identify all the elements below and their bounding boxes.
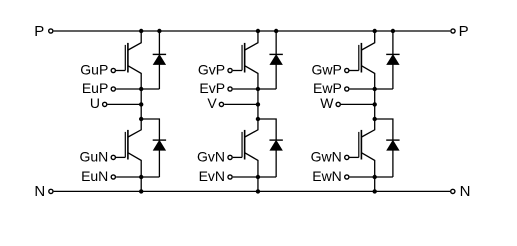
terminal P right circle — [451, 29, 455, 33]
wire: lower IGBT emitter to N rail — [362, 153, 375, 192]
wire: phase node branch to lower diode cathode — [375, 119, 393, 140]
diode DWP freewheel (upper), cathode bar — [386, 53, 399, 55]
wire: N bus rail — [54, 190, 451, 192]
terminal N right circle — [451, 189, 455, 193]
node: junction dot emitter to N rail (W leg) — [373, 189, 377, 193]
wire: lower IGBT emitter to N rail — [128, 153, 141, 192]
svg-text:EvN: EvN — [199, 168, 225, 184]
diode DVP triangle — [270, 55, 282, 64]
wire: phase node to collector of lower IGBT — [245, 119, 258, 137]
transistor QUN lower IGBT body bar — [127, 130, 129, 160]
node: junction dot phase W node (W leg) — [373, 102, 377, 106]
node: junction dot diode branch node (U leg) — [139, 117, 143, 121]
diode DWN freewheel (lower), cathode bar — [386, 139, 399, 141]
wire: P rail to DUP cathode — [158, 31, 160, 54]
wire: P rail to DWP cathode — [392, 31, 394, 54]
transistor QVN lower IGBT body bar — [244, 130, 246, 160]
terminal V circle — [219, 102, 223, 106]
node: junction dot EvP node (V leg) — [256, 87, 260, 91]
diode DVN triangle — [270, 141, 282, 150]
transistor QVP upper IGBT body bar — [244, 43, 246, 73]
transistor QWN lower IGBT gate bar — [358, 132, 360, 158]
wire: P rail to DVP cathode — [275, 31, 277, 54]
svg-text:GuN: GuN — [80, 148, 109, 164]
terminal GvN circle — [228, 155, 232, 159]
wire: gate lead GuN — [116, 156, 125, 158]
svg-text:V: V — [207, 95, 217, 111]
svg-text:EuP: EuP — [82, 80, 108, 96]
terminal EuP circle — [111, 87, 115, 91]
wire: upper IGBT emitter to phase node — [245, 66, 258, 119]
svg-text:N: N — [34, 183, 45, 200]
wire: auxiliary emitter lead EvN to node and diode — [233, 176, 276, 178]
svg-text:GwP: GwP — [311, 61, 341, 77]
node: junction dot phase U node (U leg) — [139, 102, 143, 106]
terminal GwN circle — [345, 155, 349, 159]
wire: DWN anode down to emitter node line — [392, 150, 394, 177]
wire: DVP anode down to emitter node line — [275, 64, 277, 89]
diode DUP freewheel (upper), cathode bar — [153, 53, 166, 55]
terminal W circle — [336, 102, 340, 106]
node: junction dot emitter to N rail (V leg) — [256, 189, 260, 193]
terminal EvN circle — [228, 175, 232, 179]
wire: gate lead GwN — [350, 156, 359, 158]
transistor QUP upper IGBT gate bar — [124, 45, 126, 71]
wire: phase terminal U lead — [108, 103, 142, 105]
terminal GvP circle — [228, 68, 232, 72]
transistor QUP upper IGBT body bar — [127, 43, 129, 73]
wire: P rail to collector of upper IGBT (V leg) — [245, 31, 258, 50]
svg-text:EuN: EuN — [81, 168, 108, 184]
diode DWN triangle — [387, 141, 399, 150]
node: junction dot EvN node (V leg) — [256, 175, 260, 179]
wire: gate lead GwP — [350, 70, 359, 72]
transistor QWP upper IGBT gate bar — [358, 45, 360, 71]
node: junction dot collector to P rail (W leg) — [373, 29, 377, 33]
terminal EuN circle — [111, 175, 115, 179]
wire: DUP anode down to emitter node line — [158, 64, 160, 89]
terminal GuP circle — [111, 68, 115, 72]
wire: auxiliary emitter lead EvP to node and diode — [233, 88, 276, 90]
diode DUN freewheel (lower), cathode bar — [153, 139, 166, 141]
wire: gate lead GvP — [233, 70, 242, 72]
node: junction dot diode to P rail (V leg) — [274, 29, 278, 33]
wire: phase node to collector of lower IGBT — [128, 119, 141, 137]
node: junction dot diode to P rail (U leg) — [157, 29, 161, 33]
svg-text:EwP: EwP — [313, 80, 342, 96]
svg-text:GuP: GuP — [80, 61, 108, 77]
node: junction dot diode branch node (W leg) — [373, 117, 377, 121]
wire: DVN anode down to emitter node line — [275, 150, 277, 177]
svg-text:EvP: EvP — [199, 80, 225, 96]
wire: P rail to collector of upper IGBT (U leg) — [128, 31, 141, 50]
wire: phase terminal W lead — [341, 103, 375, 105]
svg-text:N: N — [460, 183, 471, 200]
wire: P rail to collector of upper IGBT (W leg) — [362, 31, 375, 50]
wire: auxiliary emitter lead EwP to node and diode — [350, 88, 393, 90]
node: junction dot collector to P rail (U leg) — [139, 29, 143, 33]
wire: auxiliary emitter lead EuN to node and diode — [116, 176, 159, 178]
diode DWP triangle — [387, 55, 399, 64]
svg-text:P: P — [459, 23, 469, 40]
wire: phase node branch to lower diode cathode — [141, 119, 159, 140]
terminal EvP circle — [228, 87, 232, 91]
diode DVN freewheel (lower), cathode bar — [269, 139, 282, 141]
wire: phase node to collector of lower IGBT — [362, 119, 375, 137]
terminal U circle — [103, 102, 107, 106]
diode DUN triangle — [154, 141, 166, 150]
transistor QUN lower IGBT gate bar — [124, 132, 126, 158]
terminal GwP circle — [345, 68, 349, 72]
svg-text:W: W — [320, 95, 334, 111]
svg-text:GvN: GvN — [197, 148, 225, 164]
wire: upper IGBT emitter to phase node — [128, 66, 141, 119]
wire: P bus rail — [54, 30, 451, 32]
wire: gate lead GuP — [116, 70, 125, 72]
terminal P left circle — [49, 29, 53, 33]
wire: auxiliary emitter lead EuP to node and diode — [116, 88, 159, 90]
node: junction dot diode branch node (V leg) — [256, 117, 260, 121]
diode DUP triangle — [154, 55, 166, 64]
node: junction dot phase V node (V leg) — [256, 102, 260, 106]
svg-text:EwN: EwN — [312, 168, 342, 184]
wire: phase node branch to lower diode cathode — [258, 119, 276, 140]
svg-text:GvP: GvP — [198, 61, 225, 77]
node: junction dot EwN node (W leg) — [373, 175, 377, 179]
wire: phase terminal V lead — [224, 103, 258, 105]
terminal EwN circle — [345, 175, 349, 179]
svg-text:GwN: GwN — [311, 148, 342, 164]
node: junction dot collector to P rail (V leg) — [256, 29, 260, 33]
node: junction dot EuP node (U leg) — [139, 87, 143, 91]
terminal GuN circle — [111, 155, 115, 159]
svg-text:U: U — [90, 95, 100, 111]
node: junction dot EwP node (W leg) — [373, 87, 377, 91]
wire: gate lead GvN — [233, 156, 242, 158]
terminal EwP circle — [345, 87, 349, 91]
node: junction dot diode to P rail (W leg) — [391, 29, 395, 33]
wire: lower IGBT emitter to N rail — [245, 153, 258, 192]
wire: upper IGBT emitter to phase node — [362, 66, 375, 119]
svg-text:P: P — [34, 23, 44, 40]
node: junction dot emitter to N rail (U leg) — [139, 189, 143, 193]
transistor QVP upper IGBT gate bar — [241, 45, 243, 71]
wire: DUN anode down to emitter node line — [158, 150, 160, 177]
terminal N left circle — [49, 189, 53, 193]
node: junction dot EuN node (U leg) — [139, 175, 143, 179]
transistor QWN lower IGBT body bar — [360, 130, 362, 160]
wire: auxiliary emitter lead EwN to node and diode — [350, 176, 393, 178]
wire: DWP anode down to emitter node line — [392, 64, 394, 89]
diode DVP freewheel (upper), cathode bar — [269, 53, 282, 55]
transistor QWP upper IGBT body bar — [360, 43, 362, 73]
transistor QVN lower IGBT gate bar — [241, 132, 243, 158]
